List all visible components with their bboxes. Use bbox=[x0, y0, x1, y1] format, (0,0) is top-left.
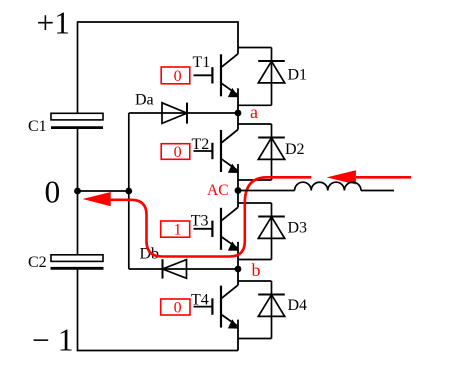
wire AC to inductor bbox=[238, 190, 295, 192]
transistor T2 (IGBT) bbox=[194, 113, 239, 191]
svg-text:C2: C2 bbox=[28, 254, 47, 271]
gate state box T1 bbox=[161, 67, 190, 84]
svg-text:T1: T1 bbox=[193, 54, 211, 71]
svg-text:0: 0 bbox=[45, 175, 61, 210]
red arrowhead at node 0 bbox=[83, 192, 111, 206]
wire bottom rail bbox=[77, 350, 238, 352]
svg-text:C1: C1 bbox=[28, 118, 47, 135]
diode Db bbox=[163, 259, 187, 278]
wire T2 top bridge bbox=[238, 123, 272, 125]
diode D2 bbox=[258, 138, 285, 160]
wire T4 bottom bridge bbox=[238, 338, 272, 340]
node 0 junction on left rail bbox=[74, 188, 81, 195]
svg-text:a: a bbox=[250, 102, 258, 122]
node AC junction bbox=[235, 187, 242, 194]
diode Da bbox=[162, 103, 187, 124]
node junction on clamp branch bbox=[125, 188, 132, 195]
wire left rail upper bbox=[77, 21, 79, 113]
svg-text:T2: T2 bbox=[192, 136, 210, 153]
gate state box T3 bbox=[161, 221, 190, 237]
wire node a horizontal bbox=[129, 112, 238, 114]
svg-text:0: 0 bbox=[174, 300, 182, 317]
wire T3 bottom bridge bbox=[238, 259, 272, 261]
svg-text:AC: AC bbox=[207, 182, 229, 199]
svg-text:1: 1 bbox=[174, 222, 182, 239]
svg-text:Db: Db bbox=[140, 246, 160, 263]
red line right segment bbox=[356, 176, 411, 179]
capacitor C1 bbox=[51, 113, 103, 127]
capacitor C2 bbox=[51, 255, 104, 268]
diode D3 bbox=[258, 217, 285, 239]
wire T4 top bridge bbox=[238, 280, 272, 282]
wire inductor to load bbox=[361, 190, 394, 192]
diode D4 bbox=[258, 295, 285, 317]
svg-text:D2: D2 bbox=[285, 141, 305, 158]
wire top rail bbox=[78, 21, 239, 23]
gate state box T2 bbox=[161, 144, 190, 160]
svg-text:D3: D3 bbox=[288, 220, 308, 237]
wire T3 top bridge bbox=[238, 202, 272, 204]
node b junction bbox=[235, 266, 242, 273]
wire neutral 0 to branch bbox=[78, 190, 129, 192]
red arrowhead on load line bbox=[327, 170, 356, 184]
wire T2 bottom bridge bbox=[238, 179, 272, 181]
svg-text:D4: D4 bbox=[288, 297, 308, 314]
wire D2 branch bbox=[271, 124, 273, 180]
red current path curve bbox=[111, 177, 312, 256]
svg-text:−1: −1 bbox=[32, 323, 82, 358]
svg-text:Da: Da bbox=[135, 92, 154, 109]
svg-text:T4: T4 bbox=[191, 292, 209, 309]
wire clamp branch vertical bbox=[128, 113, 130, 269]
svg-text:b: b bbox=[252, 260, 261, 280]
gate state box T4 bbox=[161, 299, 190, 315]
wire D1 branch bbox=[271, 48, 273, 106]
wire left rail middle bbox=[77, 129, 79, 255]
inductor L bbox=[295, 182, 361, 190]
svg-text:+1: +1 bbox=[37, 6, 71, 41]
node a junction bbox=[235, 110, 242, 117]
diode D1 bbox=[258, 61, 285, 83]
wire D3 branch bbox=[271, 203, 273, 260]
transistor T4 (IGBT) bbox=[194, 269, 239, 351]
wire T1 top bridge bbox=[238, 47, 272, 49]
wire node b horizontal bbox=[129, 268, 238, 270]
transistor T1 (IGBT) bbox=[194, 21, 239, 113]
svg-text:T3: T3 bbox=[191, 213, 209, 230]
svg-text:D1: D1 bbox=[288, 67, 308, 84]
svg-text:0: 0 bbox=[174, 68, 182, 85]
wire D4 branch bbox=[271, 281, 273, 339]
wire left rail lower bbox=[77, 269, 79, 351]
svg-text:0: 0 bbox=[174, 144, 182, 161]
transistor T3 (IGBT) bbox=[194, 191, 239, 270]
wire T1 bottom bridge bbox=[238, 104, 272, 106]
